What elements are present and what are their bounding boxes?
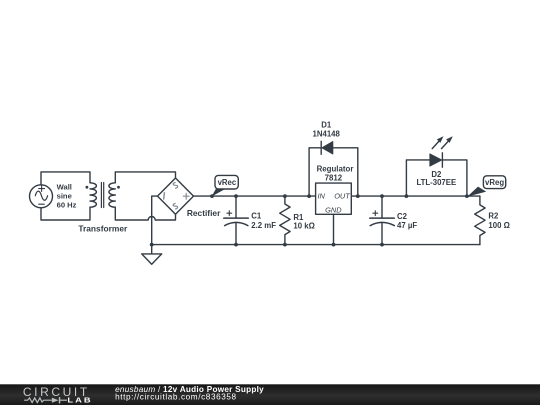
transformer polarity dot secondary (117, 186, 120, 189)
wire: rectifier negative to ground junction (152, 196, 158, 245)
LED D2 (430, 154, 442, 166)
node: IN junction (307, 194, 311, 198)
transformer T1 secondary coil (109, 183, 115, 207)
svg-text:C2: C2 (397, 212, 408, 221)
node: GND pin on rail (332, 243, 336, 247)
transformer T1 primary coil (90, 183, 96, 207)
rectifier ~ mark top (173, 183, 177, 189)
node: D2 right (465, 194, 469, 198)
svg-text:10 kΩ: 10 kΩ (293, 221, 314, 230)
node: OUT junction (356, 194, 360, 198)
resistor R2 (475, 196, 485, 245)
node: ground junction (150, 243, 154, 247)
svg-text:R2: R2 (488, 212, 499, 221)
diode D1 (322, 142, 333, 154)
capacitor C2 (370, 196, 395, 245)
rectifier bridge (158, 178, 194, 214)
node: R1 top (283, 194, 287, 198)
capacitor C1 (224, 196, 249, 245)
svg-text:D1: D1 (321, 121, 332, 130)
rectifier minus mark (163, 193, 166, 199)
transformer polarity dot primary (86, 186, 89, 189)
node: D2 left (405, 194, 409, 198)
node: C2 bottom (380, 243, 384, 247)
wire: source top to transformer primary top (41, 172, 90, 185)
wire: LED D2 loop right (442, 160, 467, 196)
svg-text:vReg: vReg (485, 178, 504, 187)
ground symbol (151, 245, 153, 254)
node: C1 bottom (234, 243, 238, 247)
rectifier ~ mark bottom (173, 203, 177, 209)
svg-text:100 Ω: 100 Ω (488, 221, 509, 230)
svg-text:Regulator: Regulator (317, 164, 354, 173)
svg-text:60 Hz: 60 Hz (57, 201, 77, 210)
voltage source V1 Wall sine 60 Hz (30, 185, 53, 208)
LED D2 arrow 1 (432, 141, 439, 148)
svg-text:7812: 7812 (325, 174, 343, 183)
svg-text:C1: C1 (251, 211, 262, 220)
net flag vRec (210, 194, 214, 198)
wire: secondary top to rectifier AC1 (115, 172, 175, 183)
svg-text:LTL-307EE: LTL-307EE (416, 178, 456, 187)
wire: bottom ground rail (152, 244, 480, 246)
net flag vReg (467, 187, 486, 197)
footer bar (0, 384, 540, 405)
wire: source bottom to transformer primary bottom (41, 207, 90, 220)
wire: D1 right branch (OUT node up) (333, 148, 358, 196)
node: R1 bottom (283, 243, 287, 247)
wire: main rail rectifier output to regulator IN (194, 195, 316, 197)
svg-text:1N4148: 1N4148 (313, 130, 341, 139)
svg-text:2.2 mF: 2.2 mF (251, 221, 276, 230)
LED D2 arrow 2 (442, 141, 449, 148)
wire: LED D2 loop left (406, 160, 430, 196)
resistor R1 (280, 196, 290, 245)
svg-text:47 µF: 47 µF (397, 221, 417, 230)
regulator U1 7812 box (316, 183, 352, 214)
svg-text:IN: IN (318, 192, 326, 201)
svg-text:GND: GND (325, 206, 342, 215)
svg-text:http://circuitlab.com/c836358: http://circuitlab.com/c836358 (115, 393, 237, 402)
rectifier plus mark (183, 193, 189, 199)
svg-text:Wall: Wall (57, 182, 72, 191)
svg-text:OUT: OUT (334, 192, 350, 201)
svg-text:Transformer: Transformer (78, 224, 128, 234)
svg-text:Rectifier: Rectifier (187, 208, 221, 218)
svg-text:sine: sine (57, 192, 72, 201)
node: C1 top (234, 194, 238, 198)
svg-text:vRec: vRec (218, 178, 237, 187)
node: C2 top (380, 194, 384, 198)
wire: main rail regulator OUT to R2 top corner (351, 195, 480, 197)
wire: D1 left branch (IN node up) (309, 148, 321, 196)
CircuitLab logo: wire with resistor and diode (24, 398, 67, 403)
wire: regulator GND pin to ground rail (333, 214, 335, 244)
transformer core (101, 183, 103, 208)
wire: secondary bottom to rectifier AC2 (hop over ground wire) (115, 207, 175, 220)
svg-text:LAB: LAB (67, 397, 92, 405)
